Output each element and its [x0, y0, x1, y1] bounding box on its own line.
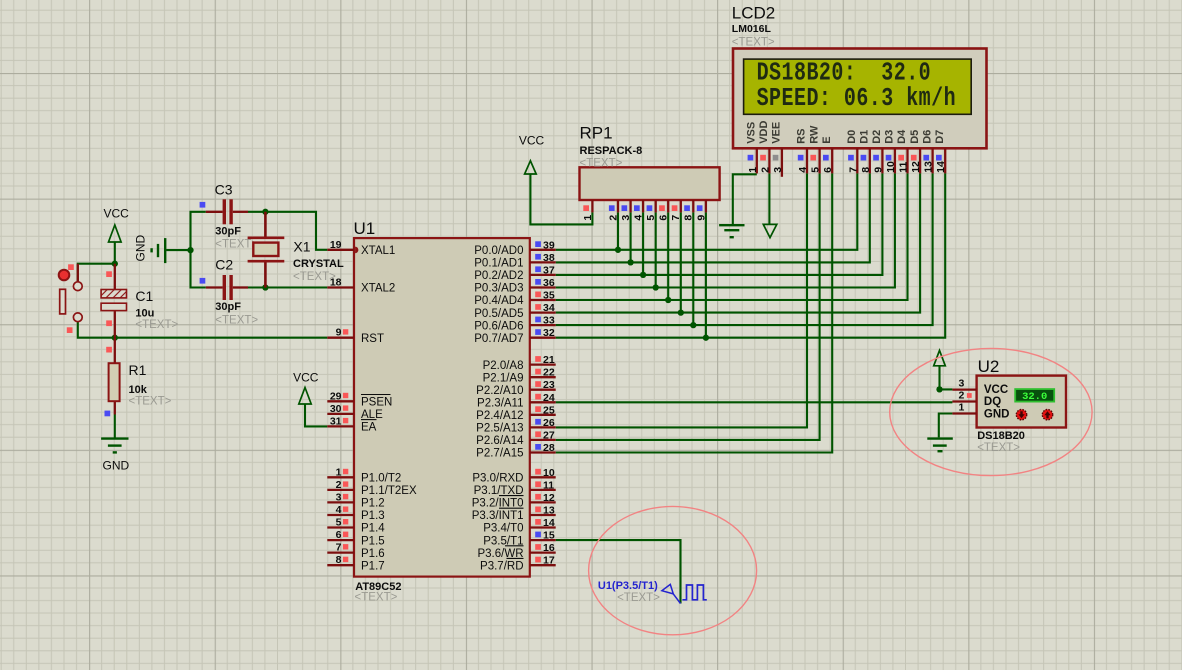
svg-text:P3.0/RXD: P3.0/RXD: [472, 473, 523, 485]
wire RP1 pin6 to AD4: [667, 212, 669, 300]
svg-text:6: 6: [822, 167, 834, 173]
U1 pin 18 (XTAL2): [327, 277, 395, 295]
wire net P2.6/A14 to LCD RW: [556, 173, 820, 440]
wire RP1 pin5 to AD3: [655, 212, 657, 287]
svg-text:17: 17: [543, 555, 555, 567]
highlight ellipse around probe: [589, 506, 757, 634]
svg-text:33: 33: [543, 315, 555, 327]
LCD2 pin 14 (D7): [934, 130, 947, 174]
svg-text:35: 35: [543, 290, 555, 302]
U2 pin 3: [952, 378, 976, 390]
junction RP1 pin8 on AD6: [690, 322, 696, 328]
wire net P0.7/AD7 to LCD D7: [556, 173, 946, 337]
svg-text:E: E: [821, 136, 833, 143]
svg-text:P2.1/A9: P2.1/A9: [483, 372, 524, 384]
svg-text:GND: GND: [103, 459, 130, 473]
wire RST net: [115, 337, 327, 339]
svg-text:4: 4: [797, 167, 809, 173]
svg-text:6: 6: [336, 529, 342, 541]
svg-text:12: 12: [910, 161, 922, 173]
U1 pin 10 (P3.0/RXD): [472, 467, 555, 485]
junction RP1 pin4 on AD2: [640, 272, 646, 278]
svg-text:U1: U1: [354, 219, 376, 238]
svg-text:2: 2: [959, 390, 965, 402]
wire net P0.1/AD1 to LCD D1: [556, 173, 870, 262]
junction RP1 pin3 on AD1: [627, 259, 633, 265]
U1 pin 29 (PSEN): [327, 390, 392, 408]
svg-text:1: 1: [959, 402, 965, 414]
svg-text:P0.6/AD6: P0.6/AD6: [474, 320, 523, 332]
U1 pin 27 (P2.6/A14): [476, 429, 556, 447]
U1 pin 24 (P2.3/A11): [477, 392, 556, 410]
wire RP1 pin7 to AD5: [680, 212, 682, 312]
svg-text:P1.7: P1.7: [361, 560, 385, 572]
svg-text:GND: GND: [134, 235, 148, 262]
svg-text:8: 8: [683, 215, 695, 221]
LCD2 pin 13 (D6): [921, 130, 934, 174]
U1 pin 3 (P1.2): [327, 491, 384, 509]
svg-text:RW: RW: [808, 125, 820, 144]
wire VCC to RP1 pin1: [530, 174, 592, 224]
U1 pin 19 (XTAL1): [327, 239, 395, 257]
wire net P0.4/AD4 to LCD D4: [556, 173, 908, 300]
svg-text:4: 4: [336, 504, 342, 516]
wire button to RST rail: [78, 322, 115, 338]
svg-text:VCC: VCC: [984, 384, 1008, 396]
U1 pin 9 (RST): [327, 327, 384, 345]
svg-text:32: 32: [543, 327, 555, 339]
svg-text:P1.5: P1.5: [361, 535, 385, 547]
U1 pin 13 (P3.3/INT1): [472, 505, 556, 523]
junction RP1 pin5 on AD3: [653, 284, 659, 290]
svg-text:30pF: 30pF: [215, 226, 241, 238]
svg-text:VEE: VEE: [771, 122, 783, 144]
U1 pin 11 (P3.1/TXD): [474, 479, 556, 497]
U1 pin 1 (P1.0/T2): [327, 466, 401, 484]
svg-text:P1.4: P1.4: [361, 523, 385, 535]
svg-text:5: 5: [645, 215, 657, 221]
LCD screen with text: [744, 58, 972, 114]
svg-text:LCD2: LCD2: [732, 4, 775, 23]
LCD2 pin 11 (D4): [896, 129, 909, 174]
svg-text:P2.2/A10: P2.2/A10: [476, 385, 523, 397]
svg-text:13: 13: [543, 505, 555, 517]
svg-text:6: 6: [658, 215, 670, 221]
U1 pin 5 (P1.4): [327, 517, 385, 535]
svg-text:P1.0/T2: P1.0/T2: [361, 473, 401, 485]
svg-text:1: 1: [336, 466, 342, 478]
U1 pin 26 (P2.5/A13): [476, 417, 556, 435]
svg-text:RP1: RP1: [580, 124, 613, 143]
RP1 pin 1: [582, 200, 594, 221]
clock waveform glyph: [682, 585, 706, 600]
U1 pin 21 (P2.0/A8): [483, 354, 556, 372]
junction RP1 pin2 on AD0: [615, 247, 621, 253]
svg-text:7: 7: [670, 215, 682, 221]
RP1 pin 6: [658, 200, 670, 221]
wire LCD VDD to VCC arrow: [768, 173, 770, 224]
svg-text:P2.7/A15: P2.7/A15: [476, 448, 523, 460]
power VCC down-arrow (at LCD VDD): [763, 224, 777, 237]
RP1 pin 7: [670, 200, 682, 221]
svg-text:5: 5: [810, 167, 822, 173]
U1 pin 25 (P2.4/A12): [476, 404, 556, 422]
LCD2 pin 9 (D2): [871, 130, 884, 174]
push button: [59, 264, 83, 333]
svg-text:5: 5: [336, 517, 342, 529]
svg-text:8: 8: [336, 554, 342, 566]
U1 pin 7 (P1.6): [327, 542, 384, 560]
svg-text:18: 18: [330, 277, 342, 289]
wire VCC to EA: [305, 404, 327, 426]
U1 pin 17 (P3.7/RD): [480, 555, 556, 573]
U1 pin 22 (P2.1/A9): [483, 367, 556, 385]
wire net P3.5/T1 to probe: [556, 540, 681, 603]
svg-text:3: 3: [336, 491, 342, 503]
RP1 pin 5: [645, 200, 657, 221]
svg-text:2: 2: [336, 479, 342, 491]
svg-text:DQ: DQ: [984, 396, 1001, 408]
wire RP1 pin2 to AD0: [617, 212, 619, 249]
U1 pin 15 (P3.5/T1): [483, 530, 555, 548]
RP1 pin 2: [607, 200, 619, 221]
svg-text:22: 22: [543, 367, 555, 379]
svg-text:EA: EA: [361, 422, 377, 434]
svg-text:14: 14: [935, 161, 947, 173]
svg-text:P2.5/A13: P2.5/A13: [476, 423, 523, 435]
LCD2 pin 1 (VSS): [746, 122, 759, 174]
svg-text:SPEED: 06.3 km/h: SPEED: 06.3 km/h: [757, 83, 956, 112]
svg-text:9: 9: [872, 167, 884, 173]
op-amp U1 AT89C52 microcontroller body: [354, 219, 530, 604]
svg-text:CRYSTAL: CRYSTAL: [293, 258, 344, 270]
svg-text:D3: D3: [884, 130, 896, 144]
wire RP1 pin8 to AD6: [692, 212, 694, 325]
svg-text:P1.3: P1.3: [361, 510, 385, 522]
svg-text:<TEXT>: <TEXT>: [617, 592, 660, 604]
svg-text:36: 36: [543, 277, 555, 289]
svg-text:30: 30: [330, 403, 342, 415]
svg-text:LM016L: LM016L: [732, 23, 772, 35]
wire net P2.5/A13 to LCD RS: [556, 173, 807, 427]
U1 pin 37 (P0.2/AD2): [474, 264, 555, 282]
svg-text:X1: X1: [293, 239, 310, 255]
svg-text:P0.7/AD7: P0.7/AD7: [474, 333, 523, 345]
wire net P2.7/A15 to LCD E: [556, 173, 833, 452]
svg-text:2: 2: [607, 215, 619, 221]
junction crystal bottom: [262, 284, 268, 290]
svg-text:P3.3/INT1: P3.3/INT1: [472, 510, 524, 522]
power VCC (at U2): [934, 350, 946, 365]
wire net P2.3/A11 to U2 DQ: [556, 401, 953, 403]
svg-text:32.0: 32.0: [1022, 391, 1047, 403]
svg-text:26: 26: [543, 417, 555, 429]
svg-text:28: 28: [543, 442, 555, 454]
svg-text:DS18B20: DS18B20: [977, 430, 1025, 442]
svg-text:1: 1: [747, 167, 759, 173]
junction VCC rail: [112, 261, 118, 267]
svg-text:10u: 10u: [135, 308, 154, 320]
svg-text:<TEXT>: <TEXT>: [215, 239, 258, 251]
svg-text:8: 8: [860, 167, 872, 173]
svg-text:VSS: VSS: [746, 122, 758, 144]
svg-text:RST: RST: [361, 333, 384, 345]
wire net P0.3/AD3 to LCD D3: [556, 173, 895, 287]
ground (rotated, crystal circuit): [134, 235, 166, 264]
svg-text:D7: D7: [934, 130, 946, 144]
wire VCC to button: [78, 264, 115, 282]
ground (below R1): [101, 439, 129, 473]
svg-text:P3.4/T0: P3.4/T0: [483, 523, 523, 535]
svg-text:D4: D4: [896, 129, 908, 144]
U1 pin 16 (P3.6/WR): [477, 542, 555, 560]
U1 pin 14 (P3.4/T0): [483, 517, 555, 535]
U2 down button: [1016, 410, 1026, 420]
svg-text:P1.6: P1.6: [361, 548, 385, 560]
svg-text:P2.6/A14: P2.6/A14: [476, 435, 524, 447]
wire R1 to ground: [114, 415, 116, 438]
svg-text:P0.0/AD0: P0.0/AD0: [474, 245, 523, 257]
wire ground to cap rail: [166, 249, 190, 251]
svg-text:25: 25: [543, 404, 555, 416]
wire U2 GND wire: [939, 414, 953, 438]
U2 up button: [1042, 410, 1052, 420]
junction RP1 pin7 on AD5: [678, 309, 684, 315]
U1 pin 2 (P1.1/T2EX): [327, 479, 417, 497]
wire net P0.2/AD2 to LCD D2: [556, 173, 883, 275]
LCD2 pin 4 (RS): [796, 129, 809, 174]
svg-text:P0.4/AD4: P0.4/AD4: [474, 295, 524, 307]
wire net P0.5/AD5 to LCD D5: [556, 173, 920, 312]
svg-text:<TEXT>: <TEXT>: [732, 37, 775, 49]
U2 temperature display 32.0: [1015, 389, 1054, 403]
wire LCD VSS to ground: [733, 174, 757, 224]
U1 pin 36 (P0.3/AD3): [474, 277, 555, 295]
LCD2 pin 10 (D3): [884, 130, 897, 174]
svg-text:D6: D6: [921, 130, 933, 144]
svg-text:P2.4/A12: P2.4/A12: [476, 410, 523, 422]
svg-text:39: 39: [543, 239, 555, 251]
svg-text:3: 3: [959, 378, 965, 390]
svg-text:P1.2: P1.2: [361, 498, 385, 510]
junction crystal top: [262, 209, 268, 215]
U2 DS18B20 temperature sensor body: [977, 357, 1066, 454]
resistor pack RP1 RESPACK-8: [580, 124, 720, 201]
highlight ellipse around U2: [890, 348, 1092, 475]
svg-text:VCC: VCC: [104, 207, 130, 221]
svg-text:P1.1/T2EX: P1.1/T2EX: [361, 485, 417, 497]
svg-text:29: 29: [330, 390, 342, 402]
ground (below LCD VSS): [719, 225, 744, 237]
svg-text:VCC: VCC: [293, 371, 319, 385]
RP1 pin 3: [620, 200, 632, 221]
wire C2 to XTAL2: [248, 286, 327, 288]
svg-text:R1: R1: [129, 362, 147, 378]
svg-text:4: 4: [633, 215, 645, 221]
LCD2 pin 8 (D1): [859, 130, 872, 174]
svg-text:XTAL2: XTAL2: [361, 283, 395, 295]
U1 pin 23 (P2.2/A10): [476, 379, 556, 397]
U1 pin 6 (P1.5): [327, 529, 384, 547]
junction cap rail / ground: [187, 247, 193, 253]
svg-text:P0.5/AD5: P0.5/AD5: [474, 308, 523, 320]
svg-text:19: 19: [330, 239, 342, 251]
U2 pin 2: [952, 390, 976, 402]
svg-text:23: 23: [543, 379, 555, 391]
svg-text:<TEXT>: <TEXT>: [977, 442, 1020, 454]
LCD2 pin 3 (VEE): [771, 122, 784, 177]
svg-text:P0.1/AD1: P0.1/AD1: [474, 258, 523, 270]
svg-text:D0: D0: [846, 130, 858, 144]
svg-text:D5: D5: [909, 130, 921, 144]
svg-text:GND: GND: [984, 409, 1010, 421]
junction RST rail: [112, 335, 118, 341]
U1 pin 4 (P1.3): [327, 504, 384, 522]
svg-text:11: 11: [543, 479, 554, 491]
LCD2 LM016L display module: [732, 4, 987, 149]
junction U2 VCC: [936, 386, 942, 392]
svg-text:37: 37: [543, 264, 555, 276]
svg-text:3: 3: [620, 215, 632, 221]
crystal X1: [248, 212, 344, 288]
RP1 pin 8: [683, 200, 695, 221]
svg-text:14: 14: [543, 517, 555, 529]
svg-text:9: 9: [695, 215, 707, 221]
RP1 pin 4: [633, 200, 645, 221]
svg-text:34: 34: [543, 302, 555, 314]
svg-text:P2.3/A11: P2.3/A11: [477, 398, 523, 410]
svg-text:P2.0/A8: P2.0/A8: [483, 360, 524, 372]
svg-text:7: 7: [847, 167, 859, 173]
RP1 pin 9: [695, 200, 707, 221]
wire RP1 pin4 to AD2: [642, 212, 644, 275]
LCD2 pin 2 (VDD): [758, 121, 771, 174]
svg-text:38: 38: [543, 252, 555, 264]
capacitor C1 10u: [101, 264, 178, 338]
junction RP1 pin6 on AD4: [665, 297, 671, 303]
svg-text:3: 3: [772, 167, 784, 173]
svg-text:C3: C3: [215, 182, 233, 198]
wire C3/C2 ground side: [191, 212, 206, 288]
LCD2 pin 6 (E): [821, 136, 834, 173]
svg-text:10: 10: [543, 467, 555, 479]
svg-text:<TEXT>: <TEXT>: [215, 314, 258, 326]
wire RP1 pin3 to AD1: [630, 212, 632, 262]
svg-text:31: 31: [330, 415, 342, 427]
svg-text:<TEXT>: <TEXT>: [129, 396, 172, 408]
svg-text:U1(P3.5/T1): U1(P3.5/T1): [598, 580, 658, 592]
U1 pin 33 (P0.6/AD6): [474, 315, 555, 333]
svg-text:RS: RS: [796, 129, 808, 144]
wire U2 VCC wire: [940, 366, 953, 390]
power VCC (at U1 EA): [293, 371, 319, 405]
svg-text:9: 9: [336, 327, 342, 339]
junction RP1 pin9 on AD7: [703, 335, 709, 341]
svg-text:<TEXT>: <TEXT>: [135, 319, 178, 331]
svg-text:13: 13: [923, 161, 935, 173]
svg-text:C1: C1: [135, 288, 153, 304]
U1 pin 8 (P1.7): [327, 554, 384, 572]
svg-text:VCC: VCC: [519, 134, 545, 148]
svg-text:<TEXT>: <TEXT>: [355, 592, 398, 604]
svg-text:2: 2: [759, 167, 771, 173]
wire VCC stem left: [114, 242, 116, 264]
capacitor C2 30pF: [200, 257, 259, 327]
LCD2 pin 7 (D0): [846, 130, 859, 174]
svg-text:D2: D2: [871, 130, 883, 144]
ground (below U2): [927, 439, 953, 452]
wire net P0.0/AD0 to LCD D0: [556, 173, 858, 249]
svg-text:12: 12: [543, 492, 555, 504]
svg-text:VDD: VDD: [758, 121, 770, 144]
power VCC (at RP1): [519, 134, 545, 175]
svg-text:10k: 10k: [129, 384, 148, 396]
svg-text:RESPACK-8: RESPACK-8: [580, 145, 643, 157]
svg-text:XTAL1: XTAL1: [361, 245, 395, 257]
svg-text:1: 1: [582, 215, 594, 221]
U1 pin 32 (P0.7/AD7): [474, 327, 555, 345]
svg-text:<TEXT>: <TEXT>: [580, 157, 623, 169]
LCD2 pin 5 (RW): [808, 125, 821, 173]
U1 pin 30 (ALE): [327, 403, 383, 421]
power VCC (left, reset circuit): [104, 207, 130, 243]
voltage probe U1(P3.5/T1): [598, 580, 681, 604]
svg-text:16: 16: [543, 542, 555, 554]
svg-text:7: 7: [336, 542, 342, 554]
wire C3 to XTAL1: [248, 212, 327, 250]
U1 pin 38 (P0.1/AD1): [474, 252, 555, 270]
svg-text:P3.7/RD: P3.7/RD: [480, 560, 523, 572]
svg-text:24: 24: [543, 392, 555, 404]
svg-text:D1: D1: [859, 130, 871, 144]
svg-text:30pF: 30pF: [215, 301, 241, 313]
svg-text:C2: C2: [215, 257, 233, 273]
U1 pin 12 (P3.2/INT0): [472, 492, 556, 510]
svg-text:15: 15: [543, 530, 555, 542]
wire RP1 pin9 to AD7: [705, 212, 707, 337]
U1 pin 35 (P0.4/AD4): [474, 290, 555, 308]
U1 pin 31 (EA): [327, 415, 376, 433]
LCD2 pin 12 (D5): [909, 130, 922, 174]
capacitor C3 30pF: [200, 182, 259, 251]
svg-text:P0.2/AD2: P0.2/AD2: [474, 270, 523, 282]
svg-text:P0.3/AD3: P0.3/AD3: [474, 283, 523, 295]
svg-text:10: 10: [885, 161, 897, 173]
svg-text:U2: U2: [978, 357, 1000, 376]
U1 pin 34 (P0.5/AD5): [474, 302, 555, 320]
svg-text:11: 11: [898, 162, 910, 173]
U1 pin 39 (P0.0/AD0): [474, 239, 555, 257]
svg-text:21: 21: [543, 354, 555, 366]
U1 pin 28 (P2.7/A15): [476, 442, 556, 460]
wire net P0.6/AD6 to LCD D6: [556, 173, 933, 325]
resistor R1 10k: [105, 338, 172, 417]
svg-text:27: 27: [543, 429, 555, 441]
U2 pin 1: [952, 402, 976, 414]
svg-text:PSEN: PSEN: [361, 397, 392, 409]
